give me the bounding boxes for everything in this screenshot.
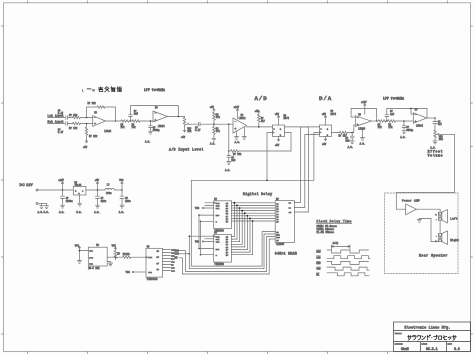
svg-text:+5V: +5V [95, 179, 100, 182]
label DC 12V [20, 183, 34, 187]
node clock tap AD [266, 180, 268, 182]
svg-text:Electronic Lions Mfg.: Electronic Lions Mfg. [405, 325, 451, 329]
capacitor C7 1000u [61, 190, 74, 205]
op-amp U12 LM324 [413, 108, 426, 127]
svg-text:D.G.: D.G. [44, 211, 50, 214]
node address mux joints [233, 202, 253, 222]
label D/A [319, 95, 332, 102]
svg-text:LM324: LM324 [104, 130, 112, 133]
label Rear Speaker [419, 254, 448, 258]
svg-text:Rch input: Rch input [48, 120, 64, 124]
svg-text:0.47: 0.47 [195, 129, 201, 132]
power +5V divider [210, 106, 215, 111]
svg-text:0.47: 0.47 [58, 131, 64, 134]
title date [426, 347, 438, 351]
node pullup out [258, 126, 260, 128]
svg-text:A/D Input Level: A/D Input Level [169, 148, 204, 152]
power +5V AD flipflop clear [275, 137, 280, 147]
svg-text:TITLE:: TITLE: [395, 332, 402, 335]
title revision [454, 347, 460, 351]
node opamp3 out [376, 120, 378, 122]
node fb RC [228, 150, 230, 152]
resistor R11 pullup osc [114, 250, 120, 260]
wire opamp4 out [427, 117, 436, 119]
svg-text:+12V: +12V [234, 106, 240, 109]
flip-flop U4 HC74 A/D [273, 114, 290, 136]
label Digital Delay [243, 192, 272, 196]
oscillator X1 16MHz module [88, 244, 107, 270]
svg-text:REV:: REV: [448, 343, 453, 346]
svg-text:+5V: +5V [275, 113, 280, 116]
capacitor C5 0.47 [189, 122, 214, 132]
node LPF opamp input [150, 120, 152, 122]
wire speaker series link [439, 220, 441, 234]
wire counter cascade links [199, 215, 201, 255]
svg-text:47k: 47k [216, 130, 221, 133]
label A/D Input Level [169, 148, 204, 152]
svg-text:XO-5 16M: XO-5 16M [88, 267, 100, 270]
wire control bus RAS [175, 237, 276, 272]
svg-text:27k: 27k [388, 126, 393, 129]
resistor R7 47k [213, 111, 221, 123]
wire 4040 outputs [163, 248, 176, 272]
svg-text:A.G.: A.G. [145, 141, 151, 144]
capacitor C2 0.47 [58, 122, 73, 135]
ground minus DG [44, 204, 50, 215]
svg-text:A.G.: A.G. [225, 169, 231, 172]
wire speaker return [419, 218, 438, 241]
title label DATE [422, 343, 428, 346]
svg-text:27k: 27k [378, 126, 383, 129]
op-amp U2 LM324 [153, 107, 168, 128]
waveform CAS2 [316, 267, 369, 271]
annotation 8clk span [331, 242, 350, 249]
resistor R13 2k7 DA out [332, 131, 353, 137]
ground divider [210, 137, 216, 146]
potentiometer VR1 10k A/D input level [183, 117, 192, 134]
svg-text:Digital Delay: Digital Delay [243, 192, 272, 196]
svg-text:3300p: 3300p [153, 129, 161, 132]
svg-text:220u: 220u [101, 200, 107, 203]
svg-text:D/A: D/A [319, 95, 332, 102]
svg-text:Volume: Volume [428, 154, 444, 158]
svg-text:A.G.: A.G. [38, 211, 44, 214]
svg-text:47k: 47k [216, 116, 221, 119]
svg-text:220u: 220u [125, 200, 131, 203]
title block box [394, 322, 471, 351]
waveform CK [316, 250, 368, 254]
power +5V bias [83, 140, 88, 149]
svg-text:A.G.: A.G. [119, 211, 125, 214]
node Rch input [48, 120, 65, 124]
power VCC rail tap [119, 179, 124, 190]
wire control bus clk riser [189, 234, 276, 269]
label LPF fc=8kHz (right) [383, 97, 404, 101]
svg-text:4k7: 4k7 [261, 120, 266, 123]
resistor R6 27k [132, 120, 154, 129]
label A/D [255, 95, 268, 102]
capacitor C4 3300p [149, 121, 161, 132]
capacitor C3 1n5 feedback [129, 106, 179, 122]
wire comparator output [247, 126, 273, 128]
svg-text:VCC: VCC [119, 179, 124, 182]
label Left [450, 216, 457, 220]
svg-text:R? 22k: R? 22k [88, 102, 97, 105]
ground C4 [145, 131, 153, 143]
label Right [450, 238, 459, 242]
svg-text:A.G.: A.G. [94, 211, 100, 214]
svg-text:3300p: 3300p [406, 129, 414, 132]
svg-text:64K×1 DRAM: 64K×1 DRAM [275, 251, 297, 255]
speaker left [435, 210, 447, 224]
resistor R1 10k [69, 114, 93, 119]
wire AD Qbar feedback [285, 133, 292, 152]
capacitor C13 4u7 [433, 118, 443, 130]
ground C6 [225, 162, 231, 173]
wire amp out [416, 209, 440, 212]
wire DRAM DO to DA D [294, 127, 319, 203]
svg-text:A.G.: A.G. [59, 211, 65, 214]
svg-text:A.G.: A.G. [360, 142, 366, 145]
power VCC oscillator [75, 245, 81, 251]
svg-text:2n2: 2n2 [345, 140, 350, 143]
power +5V AD flipflop [275, 113, 280, 125]
node osc vdd [79, 250, 81, 252]
svg-text:L: L [82, 88, 84, 92]
svg-text:RAS: RAS [316, 262, 321, 265]
node rail C8 [97, 189, 99, 191]
ground C9 [119, 205, 125, 214]
wire AD Q to DRAM DI [285, 127, 309, 212]
svg-text:LM324: LM324 [358, 128, 366, 131]
counter U8 HC590 row [214, 198, 232, 232]
svg-text:D.G.: D.G. [76, 211, 82, 214]
svg-text:R? 10k: R? 10k [69, 114, 78, 117]
svg-text:R? 10k: R? 10k [69, 127, 78, 130]
wire address bus row [232, 203, 276, 221]
power +12V opamp3 [361, 101, 367, 114]
svg-text:A/D: A/D [255, 95, 268, 102]
title label TITLE [395, 332, 402, 335]
svg-text:+5V: +5V [255, 110, 260, 113]
svg-text:Right: Right [450, 238, 459, 242]
junction dots op-amp inputs [86, 117, 88, 119]
resistor R8 47k [213, 124, 221, 137]
wire effect volume to amp [396, 134, 454, 209]
node LPF mid [130, 120, 132, 122]
svg-text:+5V: +5V [275, 144, 280, 147]
waveform CAS1 [316, 256, 370, 260]
label 64Kx1 DRAM [275, 251, 297, 255]
svg-text:VCC: VCC [126, 271, 131, 274]
svg-text:LPF fc=8kHz: LPF fc=8kHz [383, 97, 404, 101]
svg-text:CAS: CAS [316, 256, 321, 259]
svg-text:4u7: 4u7 [438, 123, 443, 126]
resistor R10 10k feedback [231, 150, 292, 157]
svg-text:A.G.: A.G. [235, 141, 241, 144]
node comparator input [228, 123, 230, 125]
ground osc GND pin [107, 262, 112, 266]
node rail C7 [62, 189, 64, 191]
svg-text:74HC4040: 74HC4040 [147, 278, 159, 281]
wire op-amp1 out to LPF [105, 120, 121, 122]
wire regulator out rail [86, 189, 105, 191]
label Effect Volume [428, 149, 444, 157]
capacitor C1 0.47 [58, 110, 73, 120]
svg-text:+5V: +5V [83, 146, 88, 149]
svg-text:A.G.: A.G. [400, 136, 406, 139]
svg-text:0.47: 0.47 [58, 112, 64, 115]
resistor R5 27k [121, 120, 133, 129]
svg-text:11.0M 46msec: 11.0M 46msec [316, 231, 334, 234]
power +5V DA flipflop clear [322, 137, 327, 147]
wire col counter inputs [189, 236, 213, 255]
node DC plus terminal [36, 189, 73, 191]
svg-text:CAS: CAS [316, 268, 321, 271]
svg-text:Power AMP: Power AMP [402, 199, 420, 202]
node LPF2 mid [386, 120, 388, 122]
title company name [405, 325, 451, 329]
wire pot to comparator [214, 123, 233, 125]
ground C7 [59, 205, 65, 214]
svg-text:R? 22k: R? 22k [89, 135, 98, 138]
svg-text:LM311: LM311 [239, 117, 247, 120]
node C12 [403, 120, 405, 122]
wire opamp3 out [371, 120, 378, 122]
rear speaker dashed enclosure [385, 193, 459, 274]
capacitor C6 integrator [227, 151, 236, 162]
node osc out [115, 256, 117, 258]
ground C12 [400, 131, 406, 139]
svg-text:1000u: 1000u [66, 200, 74, 203]
svg-text:DESIGN:: DESIGN: [395, 343, 403, 346]
power +12V rail tap [58, 179, 64, 190]
svg-text:A.G.: A.G. [348, 146, 354, 149]
amplifier A1 [406, 204, 417, 215]
comparator U3 LM311 [233, 114, 247, 133]
label LPF fc=8kHz (left) [144, 88, 165, 92]
svg-text:8clk: 8clk [333, 242, 339, 245]
node DA RC [351, 132, 353, 134]
power +5V DA flipflop [322, 113, 327, 125]
svg-text:LM324: LM324 [158, 125, 166, 128]
op-amp U1 LM324 [93, 111, 112, 133]
svg-text:10k: 10k [439, 138, 444, 141]
speaker right [435, 231, 447, 245]
svg-text:VCC: VCC [75, 245, 80, 248]
svg-text:27k: 27k [121, 126, 126, 129]
counter U9 HC590 column [214, 232, 232, 266]
potentiometer VR2 10k effect volume [434, 130, 444, 141]
svg-text:Rear Speaker: Rear Speaker [419, 254, 448, 258]
resistor R9 4k7 pullup [258, 113, 266, 126]
wire control bus CAS [175, 253, 191, 256]
title label DESIGN [395, 343, 403, 346]
node LPF fb [178, 116, 180, 118]
svg-text:ROW: ROW [316, 251, 321, 254]
svg-text:VCC: VCC [195, 207, 200, 210]
ground comparator pin1 [235, 131, 241, 144]
wire DRAM DO2 to DA preset [294, 135, 319, 208]
resistor R14 27k [378, 120, 387, 129]
capacitor C8 220u [96, 190, 107, 205]
ground minus AG [38, 204, 44, 215]
title label REV [448, 343, 453, 346]
ground C8 [94, 205, 100, 214]
resistor R15 27k [388, 120, 404, 129]
node DC minus terminal [36, 203, 47, 205]
svg-text:Clock Delay Time: Clock Delay Time [316, 219, 351, 223]
wire address bus column risers [232, 203, 253, 255]
capacitor C10 2n2 [345, 133, 354, 143]
ground comparator pin4 [242, 127, 246, 139]
svg-text:VCC: VCC [112, 245, 117, 248]
svg-text:HC74: HC74 [331, 113, 337, 116]
svg-text:DI: DI [289, 211, 291, 214]
capacitor C9 220u [120, 190, 131, 205]
label Clock Delay Time table [316, 219, 351, 234]
power +12V comparator [234, 106, 240, 119]
svg-text:78L05: 78L05 [74, 184, 82, 187]
svg-text:DI: DI [276, 239, 278, 242]
svg-text:74HC590: 74HC590 [214, 263, 224, 266]
resistor R2 10k [69, 122, 93, 130]
wire AD clock [267, 133, 273, 181]
svg-text:+5V: +5V [210, 106, 215, 109]
op-amp U11 LM324 [355, 114, 371, 131]
label L-R diff amp (Japanese, drawn as vector strokes) [82, 87, 122, 93]
power +5V pullup [255, 110, 260, 113]
power VCC pullup osc [112, 245, 117, 250]
node Lch input [48, 114, 65, 118]
title product name (Japanese katakana, drawn as vector strokes) [408, 335, 457, 340]
wire opamp4 minus join [410, 108, 413, 114]
wire row counter inputs [195, 203, 214, 222]
ground amp return [417, 218, 421, 222]
svg-text:41256P: 41256P [276, 243, 285, 246]
svg-text:+5V: +5V [181, 136, 186, 139]
svg-text:95.5.1: 95.5.1 [426, 347, 438, 351]
svg-text:DATE:: DATE: [422, 343, 428, 346]
svg-text:+5V: +5V [322, 143, 327, 146]
power +5V rail tap [95, 179, 100, 190]
ground osc decouple [78, 261, 82, 264]
svg-text:R? 10k: R? 10k [233, 153, 242, 156]
ground regulator [76, 195, 82, 214]
wire LPF output [168, 116, 185, 118]
svg-text:DC 12V: DC 12V [20, 183, 34, 187]
resistor R4 22k bias [85, 124, 98, 140]
waveform WE [316, 273, 369, 277]
regulator U6 78L05 [73, 181, 86, 195]
wire fb node down [228, 124, 230, 151]
svg-text:2n2: 2n2 [231, 159, 236, 162]
svg-text:10k: 10k [187, 130, 192, 133]
ground C10 [348, 141, 355, 149]
svg-text:+5V: +5V [322, 113, 327, 116]
wire DA node to opamp [352, 125, 355, 133]
node op-amp1 output [115, 120, 117, 122]
wire opamp3 feedback [351, 108, 376, 121]
svg-text:R?100: R?100 [123, 253, 131, 256]
memory U10 4164 DRAM [275, 198, 294, 246]
svg-text:+12V: +12V [58, 179, 64, 182]
inductor L1 100u [105, 183, 122, 194]
waveform RAS [316, 261, 368, 265]
svg-text:27k: 27k [132, 126, 137, 129]
svg-text:LPF fc=8kHz: LPF fc=8kHz [144, 88, 165, 92]
capacitor C12 3300p [402, 121, 414, 132]
label Power AMP [402, 199, 420, 202]
svg-text:A.G.: A.G. [210, 142, 216, 145]
wire C12 to opamp4 [404, 120, 413, 122]
wire control bus from clockline [191, 180, 275, 266]
wire DA clock [191, 133, 319, 181]
svg-text:0.0: 0.0 [454, 347, 460, 351]
svg-text:ChaN: ChaN [401, 347, 409, 351]
svg-text:Left: Left [450, 216, 457, 220]
power +5V pot [181, 128, 186, 139]
resistor R12 series clock [107, 253, 146, 259]
svg-text:1n5: 1n5 [134, 112, 139, 115]
svg-text:100u: 100u [106, 192, 112, 195]
node divider [213, 123, 215, 125]
svg-text:1n5: 1n5 [390, 113, 395, 116]
svg-text:HC74: HC74 [284, 117, 290, 120]
capacitor C11 1n5 feedback [385, 108, 427, 121]
svg-text:LM324: LM324 [416, 124, 424, 127]
ground opamp3 [360, 128, 366, 146]
wire VCC to osc VDD [80, 251, 89, 261]
counter U7 HC4040 divider [146, 245, 163, 281]
wire control bus WE [175, 239, 276, 274]
flip-flop U5 HC74 D/A [320, 110, 337, 136]
title designer ChaN [401, 347, 409, 351]
ground VR2 [430, 141, 437, 149]
svg-text:+12V: +12V [361, 101, 367, 104]
label VCC to 4040 reset [126, 271, 146, 274]
node rail C9 [121, 189, 123, 191]
resistor R3 22k feedback [87, 102, 116, 121]
